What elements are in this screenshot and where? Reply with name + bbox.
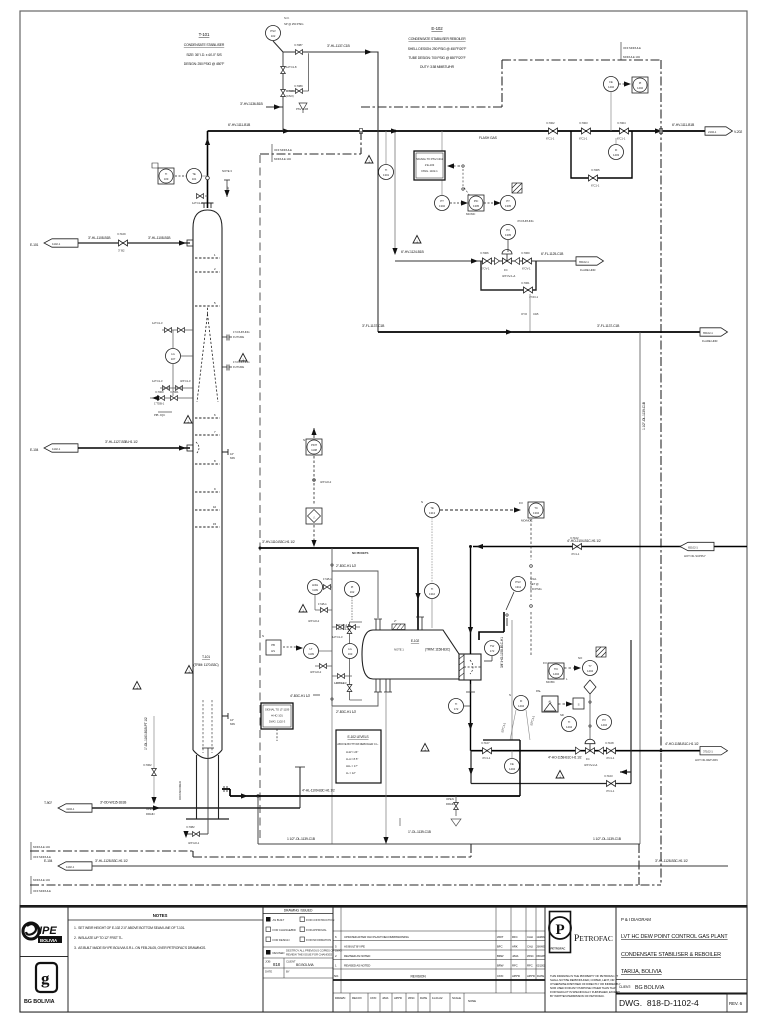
svg-text:1/2"C1-8: 1/2"C1-8: [286, 65, 297, 69]
wire TV bypass: [471, 783, 631, 785]
IPE Bolivia logo cell: [20, 907, 68, 957]
reboiler channel flange hatch: [459, 654, 464, 680]
svg-text:HOT OIL SUPPLY: HOT OIL SUPPLY: [684, 554, 706, 558]
column feed nozzle 2: [187, 445, 193, 451]
svg-text:NONE: NONE: [468, 999, 476, 1003]
svg-text:1403: 1403: [613, 153, 619, 157]
wire HV-1110 bottoms-to-reboiler line: [260, 548, 418, 630]
valve V-7088: [281, 67, 286, 74]
wire feed line 3-HL-1127: [78, 447, 190, 449]
svg-text:1402: 1402: [637, 86, 643, 90]
svg-text:NO.: NO.: [334, 974, 339, 978]
svg-text:1109: 1109: [308, 652, 314, 656]
svg-text:3"-HV-1136-B1B: 3"-HV-1136-B1B: [240, 102, 263, 106]
svg-text:10: 10: [213, 505, 216, 509]
svg-text:HLL = 17": HLL = 17": [346, 764, 358, 768]
svg-text:V-7005: V-7005: [591, 168, 600, 172]
svg-text:FC: FC: [504, 268, 508, 272]
svg-text:P & I DIAGRAM: P & I DIAGRAM: [621, 917, 651, 922]
svg-text:6"C1-1: 6"C1-1: [617, 137, 626, 141]
svg-text:REVISION: REVISION: [410, 975, 426, 979]
svg-text:# HC-101: # HC-101: [271, 714, 283, 718]
module boundary dash-dot top: [260, 60, 661, 885]
svg-text:OPEN: OPEN: [446, 797, 454, 801]
svg-text:6"-HV-1111-B1B: 6"-HV-1111-B1B: [672, 123, 695, 127]
svg-text:PSV C1B: PSV C1B: [296, 107, 308, 111]
dimension mark: [224, 180, 230, 197]
svg-text:N: N: [421, 500, 423, 504]
node hot oil supply tag: [680, 542, 714, 550]
svg-text:3/4"GO-2: 3/4"GO-2: [320, 480, 332, 484]
svg-text:FLARE HDR.: FLARE HDR.: [702, 339, 718, 343]
equipment label E-102: [408, 26, 467, 69]
svg-text:CALI: CALI: [527, 935, 533, 939]
svg-text:E-102 LEVELS: E-102 LEVELS: [347, 735, 369, 739]
revision triangle: [413, 236, 421, 244]
svg-text:172: 172: [490, 649, 495, 653]
svg-text:TY: TY: [588, 664, 592, 668]
column vortex breaker: [202, 748, 214, 756]
svg-text:2"-B3C-H1 1/2: 2"-B3C-H1 1/2: [336, 564, 356, 568]
svg-text:PSV: PSV: [515, 580, 521, 584]
svg-text:TE: TE: [192, 172, 196, 176]
svg-text:AS BUILT: AS BUILT: [273, 918, 285, 922]
svg-text:OFF MODULE: OFF MODULE: [623, 46, 641, 50]
column feed distributor internals: [197, 306, 218, 402]
instrument A-1304: [542, 696, 558, 712]
svg-text:MODULE 104: MODULE 104: [33, 878, 50, 882]
svg-text:65102-1: 65102-1: [579, 260, 589, 264]
instrument LG-163: [343, 644, 358, 659]
svg-text:E-101: E-101: [30, 243, 39, 247]
svg-text:1"GB-1: 1"GB-1: [323, 577, 332, 581]
svg-text:4"C1-1: 4"C1-1: [606, 756, 615, 760]
svg-text:1"COUPLING: 1"COUPLING: [233, 330, 250, 334]
svg-text:BRW: BRW: [497, 954, 504, 958]
svg-text:6"-FL-1125-C1B: 6"-FL-1125-C1B: [541, 252, 564, 256]
svg-text:PI: PI: [351, 585, 354, 589]
svg-text:SP @ 250 PSIG: SP @ 250 PSIG: [284, 22, 304, 26]
revision table: [333, 907, 545, 1013]
svg-text:NC PICKETS: NC PICKETS: [352, 551, 368, 555]
instrument TI-1301: [385, 131, 387, 164]
svg-text:OFF MODULE: OFF MODULE: [33, 889, 51, 893]
svg-text:FE: FE: [609, 80, 613, 84]
svg-text:1102-1: 1102-1: [66, 865, 75, 869]
svg-text:(TRIM: 1170-B3C): (TRIM: 1170-B3C): [193, 663, 218, 667]
svg-text:UPDATED AFTER OLD PLANT DECOMM: UPDATED AFTER OLD PLANT DECOMMISSIONING: [344, 935, 410, 939]
svg-text:E-102: E-102: [431, 26, 443, 31]
svg-text:BRW: BRW: [497, 964, 504, 968]
svg-text:162: 162: [350, 590, 355, 594]
control valve PV-1305: [502, 250, 512, 265]
svg-text:FC: FC: [586, 757, 590, 761]
svg-text:RFC: RFC: [512, 964, 518, 968]
svg-text:3"-HV-1110-B3C-H1 1/2: 3"-HV-1110-B3C-H1 1/2: [262, 540, 295, 544]
wire bypass drain to flare: [529, 294, 531, 332]
svg-text:3/4"GO-2: 3/4"GO-2: [308, 619, 320, 623]
svg-text:1302: 1302: [439, 204, 445, 208]
svg-text:V-202: V-202: [734, 130, 742, 134]
svg-text:4"-HO-1158-B1C-H1 1/2: 4"-HO-1158-B1C-H1 1/2: [548, 756, 582, 760]
svg-text:172: 172: [454, 707, 459, 711]
column T-101 shell: [186, 210, 229, 819]
reducer: [495, 258, 500, 265]
svg-text:PV: PV: [506, 228, 510, 232]
svg-text:WNC: WNC: [527, 954, 534, 958]
node flare hdr tag 2: [700, 328, 728, 336]
svg-text:CONDENSATE STABILISER & REBOIL: CONDENSATE STABILISER & REBOILER: [621, 952, 721, 958]
svg-text:1304: 1304: [533, 511, 539, 515]
wire main gas line 6-HV-1111: [208, 130, 706, 132]
svg-text:E-104: E-104: [44, 859, 53, 863]
wire PSV bypass vent: [286, 53, 309, 91]
svg-text:3. AS BUILT MADE BY IPE BOLIV: 3. AS BUILT MADE BY IPE BOLIVIA S.R.L. O…: [74, 946, 206, 950]
wire standpipe top run: [332, 571, 378, 618]
svg-text:6"C1-1: 6"C1-1: [546, 137, 555, 141]
svg-text:FI: FI: [520, 699, 523, 703]
wire bypass left leg: [470, 751, 472, 784]
wire hot oil return from channel: [470, 680, 472, 751]
svg-text:IPE: IPE: [39, 925, 57, 937]
node boundary crossing nub: [360, 129, 363, 134]
svg-text:RECOX: RECOX: [352, 996, 362, 1000]
BG Bolivia logo cell: [20, 957, 68, 1013]
svg-text:1"-OL-1160-B1B-PT 1/2: 1"-OL-1160-B1B-PT 1/2: [144, 717, 148, 750]
svg-text:T-907: T-907: [44, 801, 52, 805]
wire skirt drain: [153, 716, 155, 800]
svg-text:3/4"-HO-1158-B1C-H1: 3/4"-HO-1158-B1C-H1: [500, 637, 504, 668]
svg-text:PIB JQC: PIB JQC: [154, 413, 165, 417]
svg-text:DWG. 1102-1: DWG. 1102-1: [421, 169, 438, 173]
wire flare manifold bypass: [481, 261, 536, 290]
module boundary dashed west: [259, 155, 261, 841]
control valve TV-1304: [585, 739, 595, 754]
revision triangle: [365, 156, 373, 164]
svg-text:3/4"CV-1-Δ: 3/4"CV-1-Δ: [502, 274, 515, 278]
instrument FE-1404: [505, 759, 520, 774]
instrument PI-1402: [632, 77, 648, 93]
instrument LDIH-1109: [308, 580, 323, 595]
svg-text:65102-1: 65102-1: [688, 546, 698, 550]
svg-text:PSV: PSV: [270, 29, 276, 33]
svg-text:6"-HV-1124-B1B: 6"-HV-1124-B1B: [401, 250, 424, 254]
reboiler top nozzles: [374, 619, 382, 630]
instrument TI-1404: [562, 717, 577, 732]
signal box PSV-1311: [414, 151, 445, 180]
wire standpipe drain to OL: [331, 706, 333, 844]
svg-text:PDIT: PDIT: [311, 443, 317, 447]
svg-text:SD: SD: [560, 713, 564, 717]
svg-text:TIC: TIC: [554, 667, 558, 671]
svg-text:V-7004: V-7004: [617, 121, 626, 125]
svg-text:LT: LT: [310, 647, 313, 651]
svg-text:REVISED: REVISED: [273, 951, 285, 955]
svg-text:V-7001: V-7001: [170, 390, 179, 394]
wire OL-1139 riser: [639, 332, 641, 844]
valve V-7003: [582, 128, 591, 134]
valve V-7086: [281, 90, 286, 97]
svg-text:TI: TI: [455, 702, 458, 706]
drawing issued cell: [263, 907, 333, 1013]
svg-text:3"-HL-1137-C1B: 3"-HL-1137-C1B: [327, 44, 350, 48]
svg-text:FOR CONSTRUCTION: FOR CONSTRUCTION: [306, 918, 334, 922]
svg-text:DRAIN: DRAIN: [146, 812, 154, 816]
equipment label T-101: [184, 32, 225, 66]
svg-text:V-7103: V-7103: [604, 774, 613, 778]
reducer: [515, 258, 520, 265]
svg-text:12/28/09: 12/28/09: [537, 936, 546, 939]
valve V-7061: [524, 287, 533, 293]
svg-text:V-7002: V-7002: [546, 121, 555, 125]
svg-text:MW: MW: [230, 456, 235, 460]
svg-text:JZAb: JZAb: [382, 996, 389, 1000]
svg-text:3"-FL-1137-C1B: 3"-FL-1137-C1B: [597, 324, 620, 328]
svg-text:MC/MC: MC/MC: [466, 212, 475, 216]
column top nozzle: [202, 203, 214, 208]
interlock diamond: [584, 680, 596, 694]
reboiler bottom nozzles: [374, 679, 382, 692]
wire PSV-1311 inlet elbow: [479, 612, 504, 640]
svg-text:1/2"C1-3: 1/2"C1-3: [152, 379, 163, 383]
svg-text:4"C1-1: 4"C1-1: [571, 552, 580, 556]
svg-text:MC/BC: MC/BC: [546, 680, 555, 684]
svg-text:FOR DESIGN: FOR DESIGN: [273, 938, 290, 942]
svg-text:N: N: [262, 634, 264, 638]
svg-text:4"-B3C-H1 1/2: 4"-B3C-H1 1/2: [290, 694, 310, 698]
svg-text:T-101: T-101: [202, 655, 210, 659]
svg-text:2"-B3C-H1 1/2: 2"-B3C-H1 1/2: [336, 710, 356, 714]
svg-text:FOR APPROVAL: FOR APPROVAL: [306, 928, 327, 932]
tray numbers: [213, 253, 216, 526]
svg-text:1"-OL-1139-C1B: 1"-OL-1139-C1B: [408, 830, 432, 834]
svg-text:1310: 1310: [429, 592, 435, 596]
svg-text:AS BUILT BY IPE: AS BUILT BY IPE: [344, 945, 365, 949]
revision triangle: [185, 666, 193, 674]
instrument TI-172: [449, 699, 464, 714]
svg-text:4"C1-1: 4"C1-1: [482, 756, 491, 760]
svg-text:1109: 1109: [312, 588, 318, 592]
svg-text:SIGNAL TO LT-1109: SIGNAL TO LT-1109: [265, 708, 290, 712]
svg-text:(TRIM: 1158-B3C): (TRIM: 1158-B3C): [425, 648, 450, 652]
svg-text:JZAb: JZAb: [512, 954, 519, 958]
svg-text:SCALE: SCALE: [452, 996, 461, 1000]
column manway lower: [222, 713, 228, 719]
svg-text:BY: BY: [286, 970, 290, 974]
svg-text:65102-1: 65102-1: [703, 331, 713, 335]
svg-text:2102-1: 2102-1: [708, 130, 717, 134]
wire oily drain line: [92, 807, 300, 809]
wire bypass riser: [630, 640, 632, 784]
instrument FI-1404: [514, 696, 529, 711]
svg-text:DATE: DATE: [537, 974, 544, 978]
svg-text:CALI: CALI: [527, 945, 533, 949]
svg-text:C1B: C1B: [533, 312, 538, 316]
column manway: [222, 449, 228, 455]
svg-text:V-7062: V-7062: [143, 763, 152, 767]
svg-text:3"-FL-1137-C1B: 3"-FL-1137-C1B: [362, 324, 385, 328]
instrument P-162: [345, 582, 360, 597]
instrument FV-1404: [597, 715, 612, 730]
svg-text:3/4"CV-2-Δ: 3/4"CV-2-Δ: [584, 763, 597, 767]
instrument TE-1313: [425, 503, 440, 518]
svg-text:LDIH: LDIH: [312, 583, 318, 587]
revision triangle: [184, 416, 192, 424]
revision triangle: [239, 354, 247, 362]
instrument TV-1404: [583, 661, 598, 676]
svg-text:1. SET WEIR HEIGHT OF E-102 2: 1. SET WEIR HEIGHT OF E-102 2'-0" ABOVE …: [74, 926, 185, 930]
svg-text:3"-HL-1128-B3C-H1 1/2: 3"-HL-1128-B3C-H1 1/2: [95, 859, 128, 863]
svg-text:V-7000: V-7000: [155, 390, 164, 394]
instrument TC-1304: [528, 502, 544, 518]
svg-text:15: 15: [213, 522, 216, 526]
valve V-7002: [549, 128, 558, 134]
reducer: [576, 747, 581, 754]
svg-text:1"TDB-1: 1"TDB-1: [154, 402, 165, 406]
instrument PSV-1311: [511, 577, 526, 592]
svg-text:1102-1: 1102-1: [52, 447, 61, 451]
instrument PY-1305: [484, 202, 499, 204]
svg-text:6"CV-1: 6"CV-1: [481, 267, 490, 271]
wire bottoms riser to reboiler: [519, 740, 521, 796]
svg-text:JOB: JOB: [265, 960, 270, 964]
svg-text:6"C1-1: 6"C1-1: [591, 184, 600, 188]
svg-text:DESIGN: 250 PSIG @ 450°F: DESIGN: 250 PSIG @ 450°F: [184, 62, 224, 66]
svg-text:TARIJA, BOLIVIA: TARIJA, BOLIVIA: [621, 969, 662, 975]
svg-text:107: 107: [171, 357, 176, 361]
svg-text:P: P: [556, 922, 565, 938]
column trays: [195, 258, 220, 527]
svg-text:150 PSIG: 150 PSIG: [530, 587, 542, 591]
svg-text:LVT HC DEW POINT CONTROL GAS P: LVT HC DEW POINT CONTROL GAS PLANT: [621, 934, 728, 940]
svg-text:PI: PI: [639, 81, 642, 85]
svg-text:V-7082: V-7082: [186, 825, 195, 829]
svg-text:1404: 1404: [518, 704, 524, 708]
svg-text:ABOVE BOTTOM REBOILER C.L.: ABOVE BOTTOM REBOILER C.L.: [337, 742, 379, 746]
svg-text:SHELL DESIGN: 250 PSIG @ 450°F: SHELL DESIGN: 250 PSIG @ 450°F/20°F: [408, 47, 467, 51]
svg-text:BG BOLIVIA: BG BOLIVIA: [635, 985, 665, 991]
svg-text:PB: PB: [271, 643, 275, 647]
svg-text:3/4x1: 3/4x1: [530, 577, 537, 581]
wire column bottoms line: [222, 789, 520, 796]
svg-text:BG BOLIVIA: BG BOLIVIA: [296, 963, 314, 967]
reducer: [599, 747, 604, 754]
svg-text:1"GB-1: 1"GB-1: [318, 602, 327, 606]
svg-text:CONDENSATE STABILISER REBOILER: CONDENSATE STABILISER REBOILER: [408, 37, 466, 41]
svg-text:4"OO-1: 4"OO-1: [529, 295, 538, 299]
hot oil supply line: [473, 546, 747, 548]
svg-text:WDT: WDT: [497, 935, 504, 939]
svg-text:163: 163: [348, 652, 353, 656]
svg-text:REVISED AS NOTED: REVISED AS NOTED: [344, 964, 370, 968]
wire PSV discharge to flare: [273, 41, 378, 332]
wire OL-1139 header: [258, 843, 640, 845]
svg-text:1305: 1305: [505, 204, 511, 208]
title block outer: [20, 906, 747, 1013]
svg-text:TI: TI: [568, 720, 571, 724]
svg-text:V-7107: V-7107: [481, 741, 490, 745]
svg-text:3/4"GO-1: 3/4"GO-1: [188, 841, 200, 845]
wire PSV-1311 discharge: [511, 620, 513, 740]
svg-text:BY WRITTEN PERMISSION OF PETRO: BY WRITTEN PERMISSION OF PETROFAC.: [550, 994, 605, 998]
E-102 levels table: [336, 730, 381, 783]
node V-202 tag: [705, 127, 733, 135]
svg-text:APP'D: APP'D: [394, 996, 402, 1000]
svg-text:3/4"C1-3: 3/4"C1-3: [180, 379, 191, 383]
svg-text:DRAIN: DRAIN: [446, 802, 454, 806]
svg-text:REVISED AS NOTED: REVISED AS NOTED: [344, 954, 370, 958]
valve V-7102: [573, 544, 582, 550]
column downcomer: [203, 700, 212, 753]
svg-text:T-101: T-101: [199, 32, 210, 37]
wire 3-HL-1128 line: [92, 865, 728, 867]
svg-text:PETROFAC: PETROFAC: [574, 934, 613, 944]
instrument FI-1403: [615, 138, 617, 144]
svg-text:PY: PY: [506, 199, 510, 203]
svg-text:MODULE 104: MODULE 104: [274, 157, 291, 161]
svg-text:1402: 1402: [608, 85, 614, 89]
svg-text:V-7006: V-7006: [480, 251, 489, 255]
instrument PDIT-1108: [306, 439, 322, 455]
svg-text:DWG. 1102-3: DWG. 1102-3: [269, 720, 286, 724]
svg-text:CK'D: CK'D: [370, 996, 376, 1000]
svg-text:MODULE 104: MODULE 104: [33, 845, 50, 849]
svg-text:FLASH GAS: FLASH GAS: [479, 136, 498, 140]
svg-text:1311: 1311: [515, 585, 521, 589]
svg-text:WNC: WNC: [408, 996, 415, 1000]
svg-text:1404: 1404: [509, 767, 515, 771]
svg-text:ARK: ARK: [512, 945, 518, 949]
svg-text:DUTY: 3.58 MMBTU/HR: DUTY: 3.58 MMBTU/HR: [420, 65, 455, 69]
svg-text:FUTURE: FUTURE: [233, 335, 244, 339]
wire interlock dashed: [313, 525, 315, 543]
valve bottom pair: [332, 675, 352, 677]
wire PDIT dashed: [313, 456, 315, 505]
notes cell: [68, 907, 263, 1013]
svg-text:PV: PV: [602, 718, 606, 722]
svg-text:4"-HO-1158-B1C-H1 1/2: 4"-HO-1158-B1C-H1 1/2: [665, 742, 699, 746]
svg-text:37102-1: 37102-1: [703, 750, 713, 754]
svg-text:OYO: OYO: [521, 312, 528, 316]
svg-text:FOR CHANGE/BID: FOR CHANGE/BID: [273, 928, 296, 932]
PSV-102: [266, 26, 281, 41]
svg-text:TI: TI: [385, 168, 388, 172]
valve on PSV discharge: [296, 50, 303, 55]
svg-text:11-01-02: 11-01-02: [432, 996, 443, 1000]
svg-text:36": 36": [226, 186, 230, 190]
svg-text:FOR INFORMATION: FOR INFORMATION: [306, 938, 331, 942]
svg-text:PT: PT: [440, 199, 444, 203]
svg-text:FE: FE: [510, 762, 514, 766]
svg-text:V-7061: V-7061: [521, 281, 530, 285]
svg-text:1/2"C1-2: 1/2"C1-2: [192, 201, 203, 205]
Petrofac logo cell: [545, 907, 616, 1013]
column outlet nozzle: [224, 786, 227, 792]
svg-text:CK'D: CK'D: [497, 974, 503, 978]
valves cross pair: [332, 626, 360, 628]
svg-text:DWG. 818-D-1102-4: DWG. 818-D-1102-4: [619, 998, 699, 1008]
svg-text:2": 2": [394, 619, 396, 623]
svg-text:3/4"GO-2: 3/4"GO-2: [336, 623, 348, 627]
svg-text:CONDENSATE STABILISER: CONDENSATE STABILISER: [184, 43, 225, 47]
svg-text:FUTURE: FUTURE: [233, 365, 244, 369]
wire OL-1139 drop: [257, 796, 259, 844]
instrument FE-1402: [610, 92, 612, 131]
svg-text:FLARE HDR.: FLARE HDR.: [580, 268, 596, 272]
svg-text:3"-HL-1108-B1B: 3"-HL-1108-B1B: [148, 236, 171, 240]
svg-text:02/12/02: 02/12/02: [537, 965, 546, 968]
valve V-7004: [620, 128, 629, 134]
